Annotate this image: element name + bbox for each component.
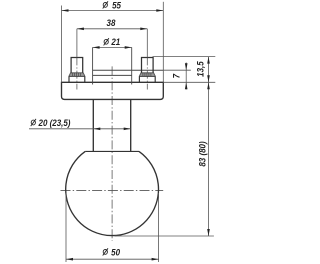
ball sphere [66,151,159,235]
svg-text:55: 55 [112,0,121,10]
post left knurl band [69,73,84,76]
post right base [139,73,155,82]
label d20 phi symbol [31,119,36,126]
post right knurl band [140,73,155,76]
flange-top extension y=82.3 [163,81,215,83]
svg-text:50: 50 [111,247,120,258]
dim 13.5 extension top y=57.2 [153,56,216,58]
dim 7 vertical with outside arrows [185,63,187,90]
neck left line [92,99,94,151]
dim 13.5 vertical inside arrows [208,57,210,83]
svg-text:20 (23,5): 20 (23,5) [38,117,71,128]
dim d21 line [93,46,132,48]
post left base line [69,75,85,77]
boss line right x=131.7 [131,47,133,84]
centerline ball horizontal [61,190,164,192]
boss top edge y=70 [93,69,164,71]
centerline left post [76,57,78,89]
flange plate outline [62,82,164,99]
dim d50 line [66,258,159,260]
svg-text:7: 7 [171,73,182,78]
dim d20 leader line [29,128,131,130]
ball bottom extension y=235.6 [115,235,214,237]
dim 7 extension y=70 [163,69,191,71]
post left base [69,73,85,82]
dim 83 vertical inside arrows [208,82,210,236]
dim d55 line [62,10,164,12]
post right base line [139,75,155,77]
boss lower edge y=75.4 [93,74,132,76]
label d55 phi symbol [103,1,108,8]
neck right line [130,99,132,151]
dim d55: extension lines [61,6,63,83]
dim 38 line [77,28,147,30]
ball flat top [85,150,139,152]
label d50 phi symbol [103,248,108,255]
post left shaft [71,58,83,73]
dim 38: extension lines [76,29,78,58]
centerline main vertical axis [111,66,113,241]
svg-text:21: 21 [110,36,120,47]
label d21 phi symbol [104,38,109,45]
post right shaft [142,58,154,73]
svg-text:38: 38 [107,17,116,28]
svg-text:13,5: 13,5 [195,61,206,77]
dim d50: extension lines [65,193,67,262]
centerline right post [146,57,148,89]
boss line left x=92.6 [92,47,94,84]
svg-text:83 (80): 83 (80) [197,141,208,166]
